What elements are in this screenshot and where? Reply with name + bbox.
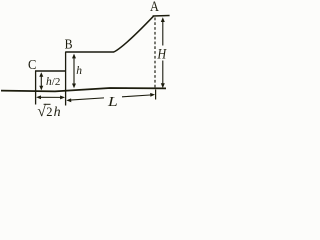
svg-text:L: L [107,95,118,110]
dashed vertical under A corner [154,18,156,90]
wire: h/2 dimension arrow [39,72,43,90]
step1 left vertical + dim bar [35,71,37,105]
svg-text:√: √ [37,103,46,118]
ground line [1,88,166,91]
svg-text:/2: /2 [52,76,61,88]
wire: sqrt(2)h dimension arrow [36,95,65,99]
L right boundary bar [155,90,157,100]
step1 top [35,70,66,72]
svg-text:C: C [28,56,37,72]
svg-text:B: B [65,35,73,51]
step2 top [65,51,114,53]
svg-text:2: 2 [46,105,52,118]
step2 left vertical + dim bar [65,52,67,106]
wire: L dimension arrow [66,93,155,102]
svg-text:h: h [76,65,82,77]
svg-text:h: h [54,105,61,118]
svg-text:H: H [157,45,168,62]
slope [114,16,154,52]
svg-text:A: A [150,0,159,14]
wire: H dimension arrow [161,17,165,88]
wire: h dimension arrow [72,54,76,89]
top plateau [153,15,170,18]
